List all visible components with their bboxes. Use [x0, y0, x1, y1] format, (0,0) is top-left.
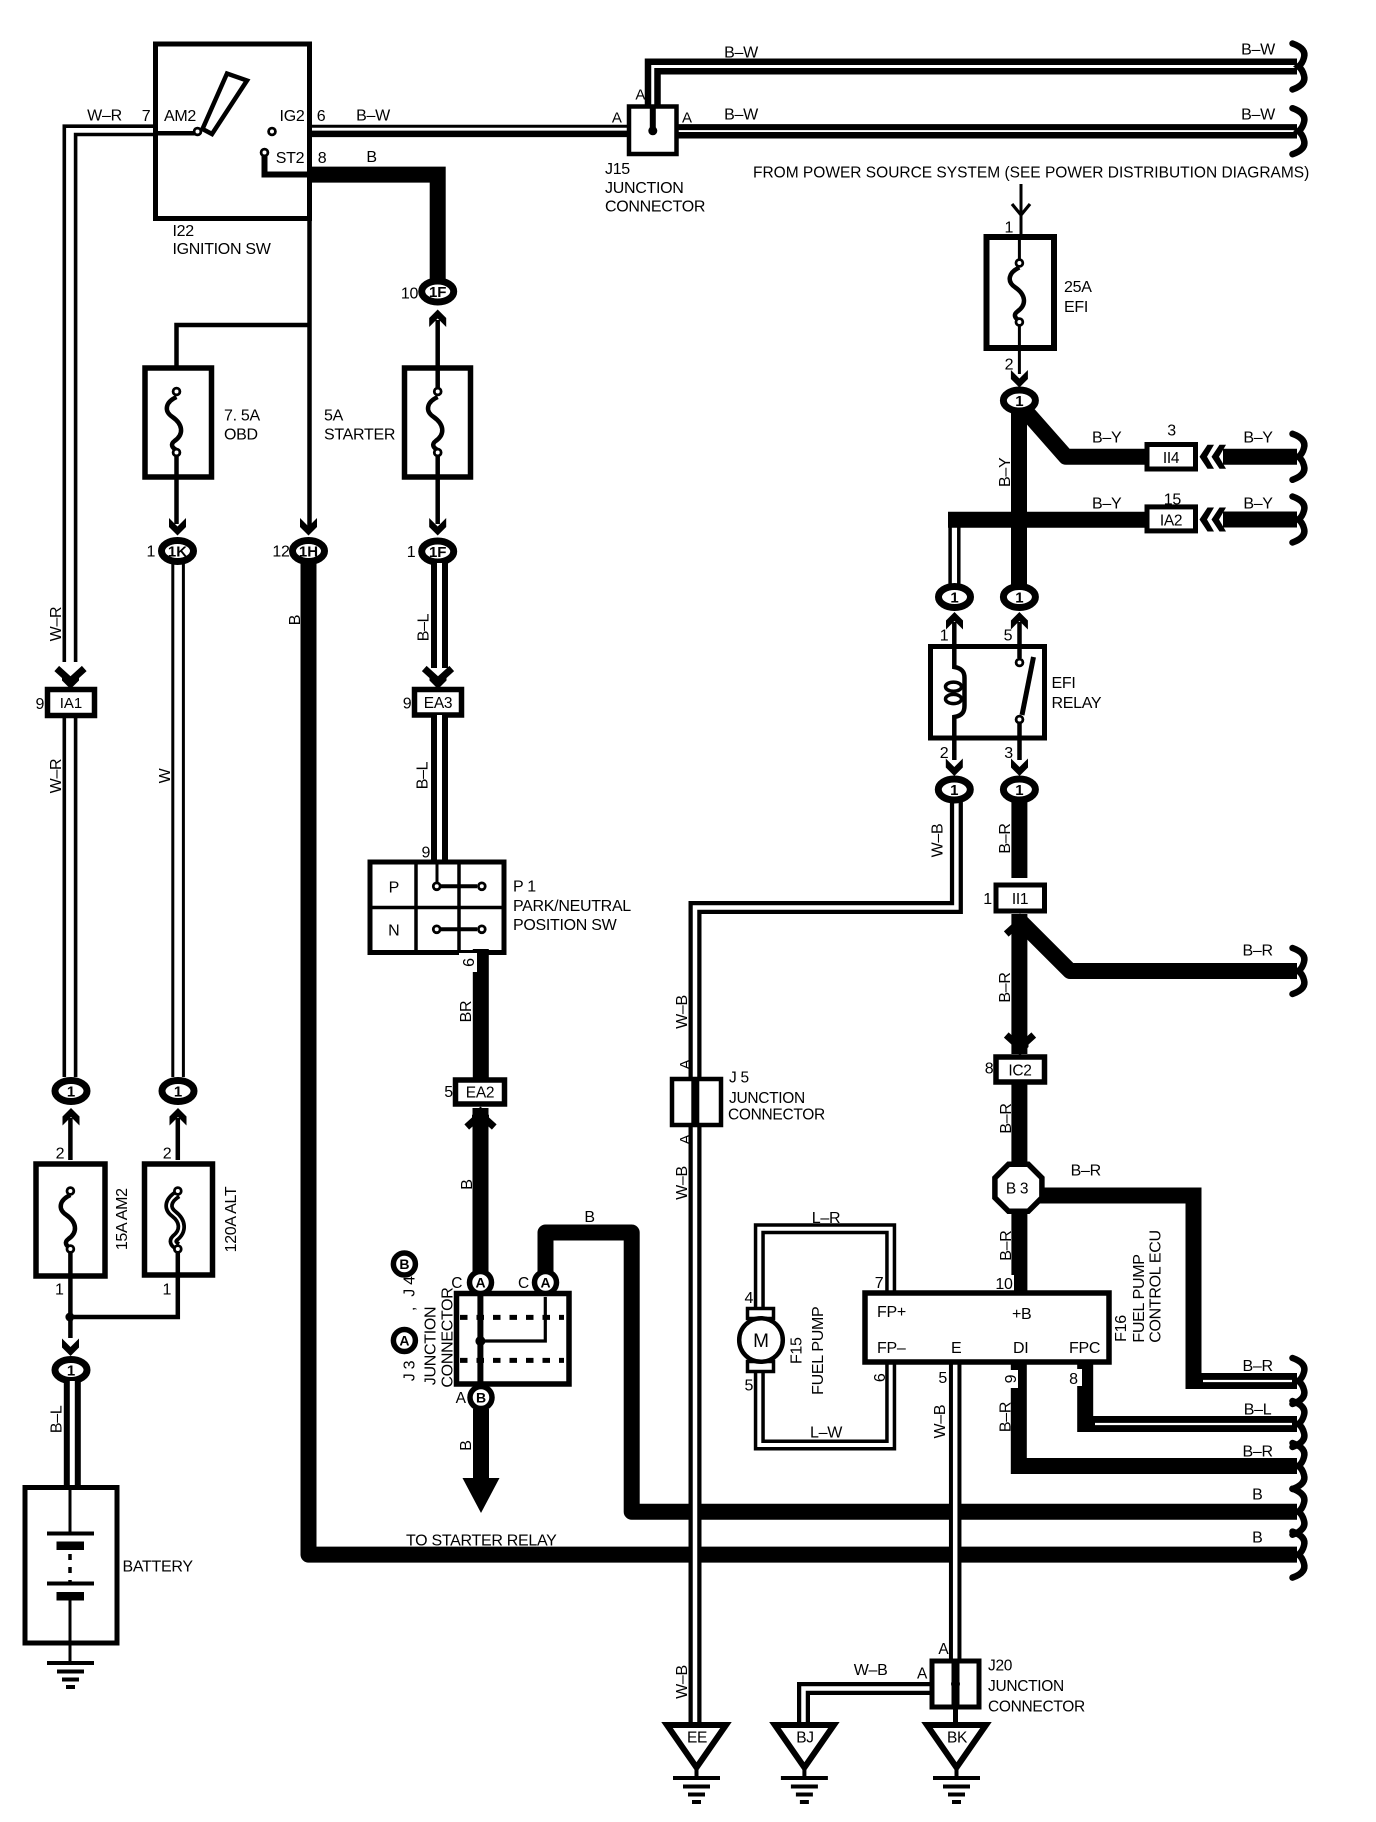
- svg-text:1: 1: [162, 1282, 171, 1299]
- svg-text:IA1: IA1: [60, 695, 83, 712]
- svg-text:W–B: W–B: [932, 1405, 949, 1439]
- svg-text:2: 2: [56, 1146, 65, 1163]
- svg-text:B–L: B–L: [1244, 1402, 1272, 1419]
- svg-text:5: 5: [744, 1378, 753, 1395]
- svg-text:W: W: [157, 767, 174, 783]
- svg-text:E: E: [951, 1340, 961, 1357]
- svg-text:A: A: [399, 1333, 409, 1349]
- svg-text:M: M: [753, 1331, 769, 1352]
- svg-text:EFI: EFI: [1052, 675, 1076, 692]
- svg-text:B–L: B–L: [49, 1405, 66, 1433]
- svg-text:CONNECTOR: CONNECTOR: [605, 199, 705, 216]
- svg-text:2: 2: [163, 1146, 172, 1163]
- svg-text:W–R: W–R: [48, 607, 65, 642]
- svg-text:25A: 25A: [1064, 279, 1092, 296]
- svg-text:B: B: [1252, 1487, 1262, 1504]
- svg-text:FP–: FP–: [877, 1340, 906, 1357]
- svg-text:BK: BK: [947, 1730, 968, 1747]
- svg-text:W–B: W–B: [674, 1665, 691, 1699]
- svg-text:9: 9: [403, 696, 412, 713]
- svg-text:CONTROL ECU: CONTROL ECU: [1148, 1230, 1165, 1343]
- svg-text:B 3: B 3: [1006, 1181, 1028, 1198]
- svg-text:A: A: [475, 1275, 485, 1291]
- svg-text:B–Y: B–Y: [1092, 496, 1122, 513]
- svg-text:TO STARTER RELAY: TO STARTER RELAY: [406, 1533, 557, 1550]
- svg-text:1: 1: [950, 590, 958, 607]
- svg-text:B–R: B–R: [1071, 1163, 1101, 1180]
- svg-text:1: 1: [174, 1084, 182, 1101]
- svg-text:7. 5A: 7. 5A: [224, 408, 260, 425]
- svg-text:A: A: [917, 1666, 928, 1683]
- svg-text:B–R: B–R: [997, 972, 1014, 1002]
- svg-text:FROM POWER SOURCE SYSTEM (SEE: FROM POWER SOURCE SYSTEM (SEE POWER DIST…: [753, 165, 1309, 182]
- svg-text:W–B: W–B: [930, 824, 947, 858]
- svg-text:EA3: EA3: [424, 695, 452, 712]
- svg-text:F16: F16: [1113, 1315, 1130, 1342]
- svg-text:OBD: OBD: [224, 427, 258, 444]
- svg-text:FUEL PUMP: FUEL PUMP: [810, 1307, 827, 1395]
- svg-text:FPC: FPC: [1069, 1340, 1100, 1357]
- svg-text:15A AM2: 15A AM2: [114, 1188, 131, 1250]
- svg-text:PARK/NEUTRAL: PARK/NEUTRAL: [513, 898, 631, 915]
- svg-text:9: 9: [421, 845, 430, 862]
- svg-text:B–R: B–R: [997, 823, 1014, 853]
- svg-text:B–W: B–W: [724, 45, 759, 62]
- svg-text:II1: II1: [1012, 891, 1028, 908]
- svg-text:1K: 1K: [168, 544, 187, 561]
- svg-text:B–R: B–R: [1242, 1444, 1272, 1461]
- svg-text:1: 1: [55, 1282, 64, 1299]
- svg-text:JUNCTION: JUNCTION: [422, 1307, 439, 1385]
- svg-text:10: 10: [401, 286, 419, 303]
- svg-text:1: 1: [67, 1363, 75, 1380]
- svg-text:B–R: B–R: [1242, 943, 1272, 960]
- svg-text:6: 6: [872, 1373, 889, 1382]
- svg-text:15: 15: [1164, 492, 1182, 509]
- svg-text:AM2: AM2: [164, 108, 196, 125]
- svg-text:1F: 1F: [429, 284, 447, 301]
- svg-text:5: 5: [444, 1084, 453, 1101]
- svg-text:BR: BR: [458, 1001, 475, 1023]
- svg-text:P: P: [389, 880, 399, 897]
- svg-text:CONNECTOR: CONNECTOR: [988, 1699, 1085, 1716]
- svg-text:J15: J15: [605, 161, 630, 178]
- svg-text:IGNITION SW: IGNITION SW: [173, 241, 272, 258]
- svg-text:A: A: [540, 1275, 550, 1291]
- svg-text:EFI: EFI: [1064, 299, 1088, 316]
- svg-text:B–R: B–R: [997, 1402, 1014, 1432]
- svg-text:B–W: B–W: [356, 108, 391, 125]
- svg-text:A: A: [456, 1390, 467, 1407]
- svg-text:W–B: W–B: [674, 995, 691, 1029]
- svg-text:12: 12: [272, 544, 290, 561]
- svg-text:F15: F15: [788, 1337, 805, 1364]
- svg-text:A: A: [677, 1059, 694, 1069]
- svg-text:EE: EE: [687, 1730, 707, 1747]
- svg-text:FP+: FP+: [877, 1304, 906, 1321]
- svg-text:8: 8: [1069, 1371, 1078, 1388]
- svg-text:B–R: B–R: [998, 1103, 1015, 1133]
- svg-text:B: B: [366, 149, 376, 166]
- svg-text:B–W: B–W: [724, 107, 759, 124]
- svg-text:A: A: [612, 110, 622, 127]
- svg-text:JUNCTION: JUNCTION: [729, 1090, 805, 1107]
- svg-text:B–L: B–L: [416, 613, 433, 641]
- svg-text:J20: J20: [988, 1658, 1013, 1675]
- svg-text:B–Y: B–Y: [997, 457, 1014, 487]
- svg-text:B: B: [287, 615, 304, 625]
- svg-text:L–W: L–W: [810, 1425, 843, 1442]
- svg-text:C: C: [518, 1275, 529, 1292]
- svg-text:J 4: J 4: [402, 1276, 419, 1297]
- svg-text:IG2: IG2: [280, 108, 305, 125]
- svg-text:,: ,: [402, 1307, 419, 1311]
- svg-text:II4: II4: [1163, 450, 1180, 467]
- svg-text:B: B: [476, 1390, 486, 1406]
- svg-text:1: 1: [983, 891, 992, 908]
- svg-text:5: 5: [1004, 628, 1013, 645]
- svg-text:1: 1: [950, 782, 958, 799]
- svg-text:B–Y: B–Y: [1092, 430, 1122, 447]
- svg-text:J 5: J 5: [729, 1070, 749, 1087]
- svg-text:RELAY: RELAY: [1052, 695, 1102, 712]
- svg-text:2: 2: [940, 745, 949, 762]
- svg-text:2: 2: [1005, 357, 1014, 374]
- svg-text:7: 7: [142, 108, 151, 125]
- svg-text:B: B: [458, 1440, 475, 1450]
- svg-text:B–R: B–R: [1242, 1358, 1272, 1375]
- svg-text:3: 3: [1167, 423, 1176, 440]
- svg-text:4: 4: [744, 1290, 753, 1307]
- svg-text:120A ALT: 120A ALT: [223, 1186, 240, 1252]
- svg-text:BJ: BJ: [796, 1730, 814, 1747]
- svg-text:B–Y: B–Y: [1243, 496, 1273, 513]
- svg-text:P 1: P 1: [513, 879, 536, 896]
- svg-text:I22: I22: [173, 223, 195, 240]
- svg-text:N: N: [388, 923, 399, 940]
- svg-text:9: 9: [1003, 1374, 1020, 1383]
- svg-text:6: 6: [461, 958, 478, 967]
- svg-text:IC2: IC2: [1008, 1063, 1031, 1080]
- svg-text:IA2: IA2: [1160, 513, 1182, 530]
- svg-text:A: A: [635, 87, 645, 104]
- svg-text:B–W: B–W: [1241, 107, 1276, 124]
- svg-text:STARTER: STARTER: [324, 427, 395, 444]
- svg-text:1H: 1H: [299, 544, 318, 561]
- svg-text:EA2: EA2: [466, 1085, 494, 1102]
- svg-text:B: B: [399, 1256, 409, 1272]
- svg-text:CONNECTOR: CONNECTOR: [439, 1287, 456, 1387]
- svg-text:B: B: [459, 1179, 476, 1189]
- svg-text:POSITION SW: POSITION SW: [513, 917, 618, 934]
- svg-text:W–R: W–R: [87, 108, 122, 125]
- svg-text:B–L: B–L: [414, 761, 431, 789]
- svg-text:8: 8: [985, 1061, 994, 1078]
- svg-text:1: 1: [1004, 220, 1013, 237]
- svg-text:1: 1: [1015, 782, 1023, 799]
- svg-text:W–B: W–B: [854, 1662, 888, 1679]
- svg-text:DI: DI: [1013, 1340, 1028, 1357]
- svg-text:7: 7: [875, 1275, 884, 1292]
- svg-text:W–B: W–B: [674, 1166, 691, 1200]
- svg-text:A: A: [682, 110, 692, 127]
- svg-text:1: 1: [1015, 393, 1023, 410]
- svg-text:1: 1: [146, 544, 155, 561]
- svg-text:J 3: J 3: [402, 1360, 419, 1381]
- svg-text:BATTERY: BATTERY: [123, 1559, 194, 1576]
- svg-text:B–Y: B–Y: [1243, 430, 1273, 447]
- svg-text:9: 9: [35, 696, 44, 713]
- svg-text:A: A: [677, 1134, 694, 1144]
- svg-text:ST2: ST2: [276, 150, 305, 167]
- svg-text:8: 8: [318, 150, 327, 167]
- svg-text:A: A: [938, 1641, 949, 1658]
- svg-text:B–R: B–R: [998, 1230, 1015, 1260]
- svg-text:JUNCTION: JUNCTION: [605, 180, 683, 197]
- svg-text:L–R: L–R: [812, 1210, 840, 1227]
- svg-text:1: 1: [1015, 590, 1023, 607]
- svg-text:JUNCTION: JUNCTION: [988, 1678, 1064, 1695]
- svg-text:1: 1: [67, 1084, 75, 1101]
- svg-text:1: 1: [407, 544, 416, 561]
- svg-text:1F: 1F: [429, 544, 447, 561]
- svg-text:5: 5: [938, 1370, 947, 1387]
- svg-text:FUEL PUMP: FUEL PUMP: [1131, 1254, 1148, 1342]
- svg-text:6: 6: [317, 108, 326, 125]
- svg-text:W–R: W–R: [48, 759, 65, 794]
- svg-text:B–W: B–W: [1241, 42, 1276, 59]
- svg-text:B: B: [1252, 1530, 1262, 1547]
- svg-text:B: B: [584, 1209, 594, 1226]
- svg-text:5A: 5A: [324, 408, 344, 425]
- svg-text:1: 1: [940, 628, 949, 645]
- svg-text:CONNECTOR: CONNECTOR: [728, 1107, 825, 1124]
- svg-text:+B: +B: [1012, 1306, 1031, 1323]
